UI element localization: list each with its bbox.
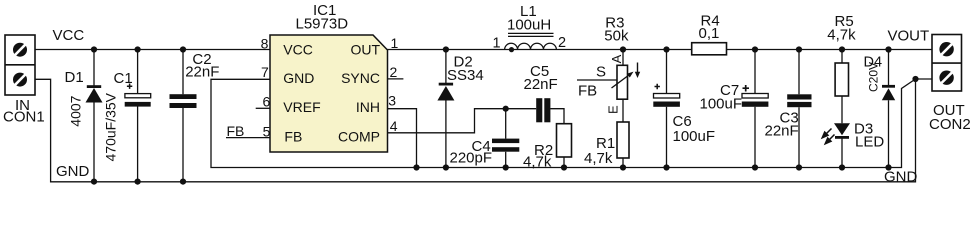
svg-text:COMP: COMP xyxy=(338,128,380,144)
svg-text:4,7k: 4,7k xyxy=(827,26,856,43)
svg-text:C1: C1 xyxy=(114,70,133,87)
svg-text:100uH: 100uH xyxy=(507,17,551,34)
svg-text:FB: FB xyxy=(578,82,597,99)
svg-text:E: E xyxy=(606,105,621,114)
svg-text:22nF: 22nF xyxy=(524,76,558,93)
svg-text:4,7k: 4,7k xyxy=(523,154,552,171)
svg-text:7: 7 xyxy=(261,64,269,80)
svg-text:CON1: CON1 xyxy=(3,108,45,125)
svg-text:OUT: OUT xyxy=(350,42,380,58)
svg-text:100uF: 100uF xyxy=(700,95,743,112)
svg-text:470uF/35V: 470uF/35V xyxy=(103,92,119,161)
svg-text:S: S xyxy=(596,64,606,81)
svg-text:22nF: 22nF xyxy=(765,122,799,139)
svg-text:FB: FB xyxy=(284,129,302,145)
svg-text:D1: D1 xyxy=(65,69,84,86)
svg-text:SS34: SS34 xyxy=(447,67,484,84)
svg-text:INH: INH xyxy=(356,99,380,115)
svg-text:4007: 4007 xyxy=(68,95,84,126)
svg-text:100uF: 100uF xyxy=(673,128,716,145)
svg-text:VCC: VCC xyxy=(283,42,313,58)
svg-text:3: 3 xyxy=(388,93,396,109)
svg-text:SYNC: SYNC xyxy=(341,70,380,86)
svg-text:VCC: VCC xyxy=(53,27,85,44)
svg-text:GND: GND xyxy=(283,70,314,86)
svg-text:VOUT: VOUT xyxy=(888,27,930,44)
svg-text:LED: LED xyxy=(855,133,884,150)
svg-text:4,7k: 4,7k xyxy=(584,150,613,167)
svg-text:CON2: CON2 xyxy=(929,116,970,133)
svg-text:5: 5 xyxy=(263,123,271,139)
svg-text:4: 4 xyxy=(390,118,398,134)
svg-text:GND: GND xyxy=(56,163,90,180)
svg-text:6: 6 xyxy=(263,93,271,109)
svg-text:50k: 50k xyxy=(604,28,629,45)
svg-text:0,1: 0,1 xyxy=(699,25,720,42)
svg-text:VREF: VREF xyxy=(283,99,320,115)
svg-text:C20V: C20V xyxy=(867,62,881,92)
svg-text:220pF: 220pF xyxy=(450,149,493,166)
svg-text:2: 2 xyxy=(558,35,566,51)
svg-text:2: 2 xyxy=(390,64,398,80)
svg-text:1: 1 xyxy=(493,36,501,52)
svg-text:8: 8 xyxy=(261,36,269,52)
svg-text:FB: FB xyxy=(227,123,245,139)
svg-text:1: 1 xyxy=(391,35,399,51)
svg-text:GND: GND xyxy=(884,169,918,186)
svg-text:L5973D: L5973D xyxy=(296,15,349,32)
svg-text:22nF: 22nF xyxy=(185,63,219,80)
svg-text:A: A xyxy=(609,54,624,63)
